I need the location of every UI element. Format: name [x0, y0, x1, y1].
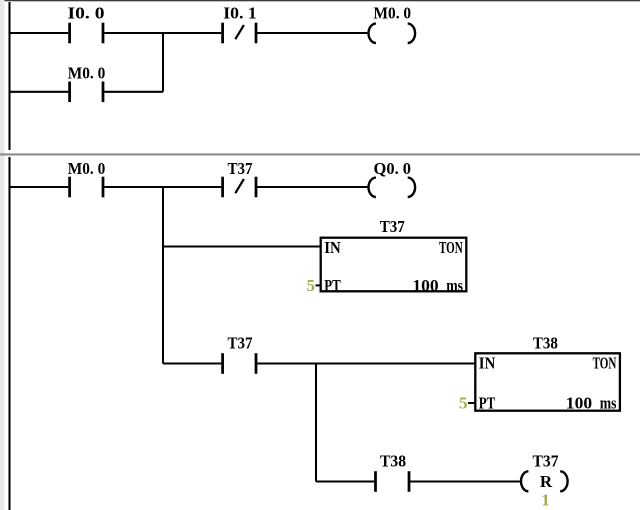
- svg-text:T38: T38: [380, 451, 406, 470]
- svg-text:TON: TON: [439, 238, 463, 257]
- svg-text:Q0. 0: Q0. 0: [374, 159, 412, 178]
- svg-text:ms: ms: [600, 394, 617, 413]
- svg-text:I0. 1: I0. 1: [223, 4, 257, 23]
- svg-text:PT: PT: [479, 394, 496, 413]
- svg-text:1: 1: [541, 491, 550, 510]
- svg-text:M0. 0: M0. 0: [374, 4, 412, 23]
- svg-text:PT: PT: [324, 276, 341, 295]
- svg-text:IN: IN: [324, 238, 341, 257]
- svg-text:M0. 0: M0. 0: [68, 159, 106, 178]
- svg-text:T37: T37: [228, 159, 253, 178]
- svg-text:R: R: [540, 472, 553, 491]
- svg-text:M0. 0: M0. 0: [68, 63, 106, 82]
- svg-text:100: 100: [412, 276, 438, 295]
- svg-text:TON: TON: [593, 354, 617, 373]
- svg-text:ms: ms: [446, 276, 463, 295]
- svg-text:I0. 0: I0. 0: [68, 4, 105, 23]
- svg-text:5: 5: [459, 394, 468, 413]
- svg-text:T37: T37: [533, 451, 559, 470]
- svg-text:T37: T37: [228, 334, 253, 353]
- svg-text:T38: T38: [533, 334, 558, 353]
- svg-text:5: 5: [307, 276, 316, 295]
- svg-text:100: 100: [566, 394, 592, 413]
- svg-text:T37: T37: [380, 217, 405, 236]
- svg-text:IN: IN: [479, 354, 496, 373]
